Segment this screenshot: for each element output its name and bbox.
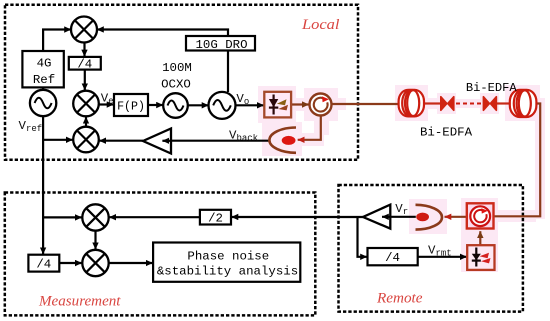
svg-text:100M: 100M xyxy=(162,61,192,75)
svg-text:/4: /4 xyxy=(36,258,51,272)
svg-text:Remote: Remote xyxy=(376,289,423,306)
svg-text:OCXO: OCXO xyxy=(161,78,191,92)
svg-text:F(P): F(P) xyxy=(117,100,145,113)
svg-text:Bi-EDFA: Bi-EDFA xyxy=(420,126,473,140)
svg-text:/4: /4 xyxy=(385,251,400,265)
svg-text:4G: 4G xyxy=(37,57,52,71)
svg-text:10G DRO: 10G DRO xyxy=(195,38,247,52)
svg-text:&stability analysis: &stability analysis xyxy=(157,265,298,279)
svg-text:Measurement: Measurement xyxy=(38,293,121,310)
svg-text:Bi-EDFA: Bi-EDFA xyxy=(466,81,518,95)
svg-text:/2: /2 xyxy=(208,212,223,226)
svg-text:Ref: Ref xyxy=(33,73,55,87)
svg-text:Phase noise: Phase noise xyxy=(187,250,269,264)
svg-text:/4: /4 xyxy=(77,58,92,72)
svg-text:Local: Local xyxy=(301,16,340,33)
